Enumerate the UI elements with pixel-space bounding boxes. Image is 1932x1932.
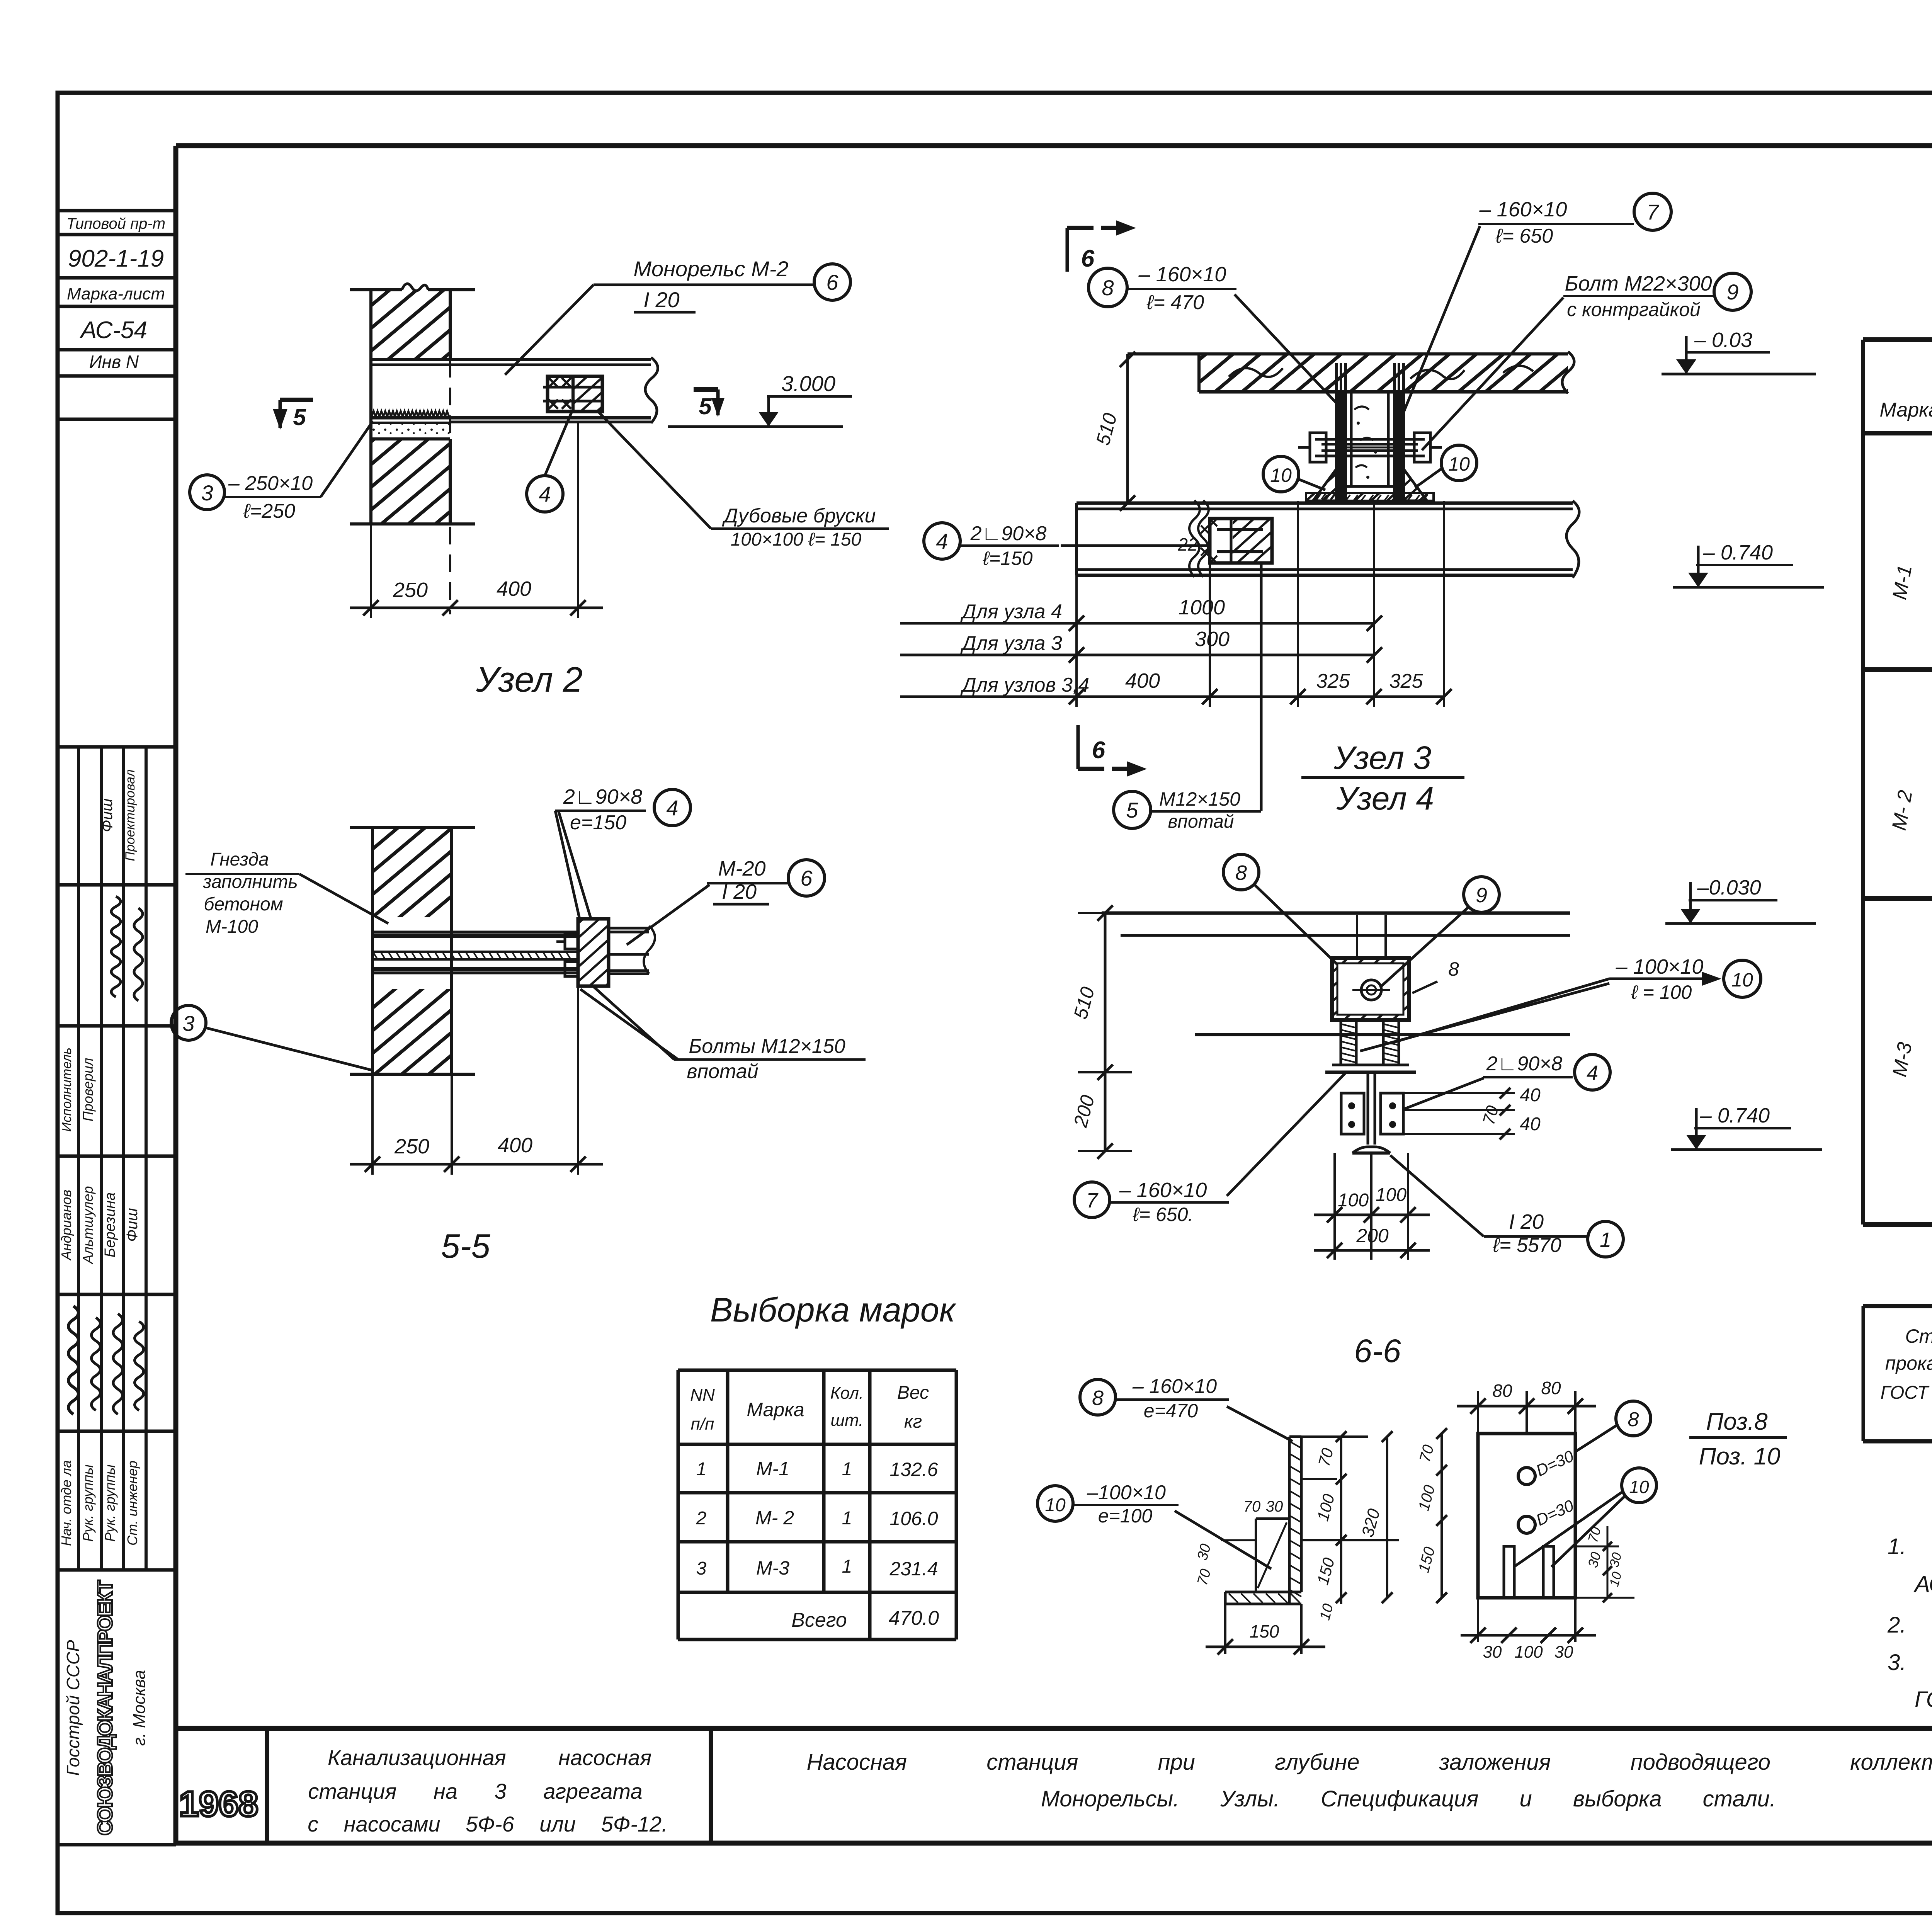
callout 8 with label (pos8) xyxy=(1080,1379,1116,1415)
left dims 70/100/150 xyxy=(1440,1434,1443,1598)
svg-text:ГОСТ 380-60: ГОСТ 380-60 xyxy=(1880,1383,1932,1403)
svg-text:400: 400 xyxy=(498,1134,532,1157)
callout 8 right xyxy=(1616,1401,1651,1436)
svg-text:6: 6 xyxy=(800,866,813,890)
spec steel table xyxy=(1863,340,1932,1225)
svg-text:– 0.740: – 0.740 xyxy=(1700,1104,1770,1127)
svg-text:шт.: шт. xyxy=(831,1411,864,1430)
svg-text:400: 400 xyxy=(497,577,531,600)
svg-text:325: 325 xyxy=(1389,670,1423,692)
ceiling slab hatched xyxy=(1199,354,1568,392)
dims 100/100/200 below xyxy=(1333,1153,1336,1260)
svg-text:9: 9 xyxy=(1476,884,1487,907)
svg-text:ГОСТ 9467 - 60.: ГОСТ 9467 - 60. xyxy=(1915,1687,1932,1712)
bolt heads xyxy=(565,934,578,949)
monorail beam (uzel 3-4) xyxy=(1077,502,1573,505)
callout 10 with -100x10 label xyxy=(1724,960,1761,997)
svg-text:Узел 3: Узел 3 xyxy=(1333,740,1431,776)
organization block xyxy=(58,1580,176,1845)
svg-text:4: 4 xyxy=(666,796,678,820)
svg-text:8: 8 xyxy=(1092,1386,1104,1410)
signature grid xyxy=(58,747,176,1570)
svg-text:8: 8 xyxy=(1448,958,1459,980)
svg-text:– 160×10: – 160×10 xyxy=(1138,263,1226,286)
svg-text:70: 70 xyxy=(1243,1498,1261,1515)
callout 4 angles (uzel 3-4) xyxy=(924,522,1210,569)
svg-text:400: 400 xyxy=(1125,669,1160,692)
svg-text:3: 3 xyxy=(182,1011,194,1036)
callout 5 bolt M12 xyxy=(1114,563,1261,832)
svg-text:Болт М22×300: Болт М22×300 xyxy=(1565,272,1712,295)
svg-text:АС-54: АС-54 xyxy=(79,317,147,344)
bottom bars xyxy=(1504,1546,1514,1598)
bearing plate assembly xyxy=(578,919,609,986)
wall upper hatched block xyxy=(371,290,450,360)
seat plate on beam xyxy=(1306,493,1434,501)
spec table data xyxy=(1888,444,1932,1213)
svg-text:Андрианов: Андрианов xyxy=(58,1190,74,1261)
svg-text:200: 200 xyxy=(1356,1225,1389,1247)
uzel 2 drawing xyxy=(190,257,889,699)
upper plate box with hole xyxy=(1332,958,1409,1020)
svg-text:6: 6 xyxy=(1092,737,1105,764)
svg-text:1: 1 xyxy=(842,1459,852,1480)
svg-text:Для узла 4: Для узла 4 xyxy=(960,600,1062,623)
right dims of side view xyxy=(1301,1435,1368,1438)
svg-text:10: 10 xyxy=(1448,453,1470,475)
slab squiggles xyxy=(1229,368,1283,377)
svg-text:Фиш: Фиш xyxy=(124,1208,141,1242)
svg-text:кг: кг xyxy=(904,1412,922,1432)
svg-text:132.6: 132.6 xyxy=(889,1459,938,1480)
svg-text:4: 4 xyxy=(936,529,948,553)
callout 3 plate label xyxy=(190,475,224,510)
svg-text:9: 9 xyxy=(1726,280,1738,304)
svg-text:10: 10 xyxy=(1731,969,1753,991)
svg-text:М12×150: М12×150 xyxy=(1159,788,1240,810)
callout 10 right xyxy=(1622,1468,1656,1503)
left column header boxes xyxy=(58,211,176,419)
spec table header text xyxy=(1879,351,1932,421)
svg-text:100: 100 xyxy=(1514,1643,1543,1662)
callouts 10 gussets xyxy=(1263,445,1477,492)
uzel 3/4 title xyxy=(1301,740,1464,816)
svg-text:Исполнитель: Исполнитель xyxy=(60,1048,74,1132)
svg-text:ℓ = 100: ℓ = 100 xyxy=(1631,981,1692,1003)
right small dims xyxy=(1575,1546,1619,1548)
svg-text:М-20: М-20 xyxy=(718,857,765,880)
section marker 6 bottom xyxy=(1077,725,1080,769)
svg-text:10: 10 xyxy=(1045,1495,1066,1515)
svg-text:1. Совместно с данным листом: 1. Совместно с данным листом см. лист xyxy=(1888,1534,1932,1559)
dim 510/200 left (6-6) xyxy=(1104,913,1107,1151)
svg-text:ℓ=150: ℓ=150 xyxy=(983,548,1033,569)
serrated seat line xyxy=(372,411,449,417)
svg-text:Проверил: Проверил xyxy=(80,1058,96,1122)
svg-text:Поз. 10: Поз. 10 xyxy=(1699,1443,1781,1470)
svg-text:Узел 2: Узел 2 xyxy=(476,660,583,699)
svg-text:АС -53.: АС -53. xyxy=(1913,1571,1932,1597)
svg-text:Выборка марок: Выборка марок xyxy=(710,1291,957,1329)
extension line x=1496 xyxy=(577,422,579,618)
svg-text:Поз.8: Поз.8 xyxy=(1706,1408,1768,1435)
svg-text:Альтшулер: Альтшулер xyxy=(80,1186,96,1264)
pos8 side view plate xyxy=(1037,1375,1399,1655)
svg-text:3. Сварку производить электр: 3. Сварку производить электродами Э-42 xyxy=(1888,1650,1932,1675)
bottom dim 150 xyxy=(1224,1604,1226,1654)
svg-text:5: 5 xyxy=(293,404,306,430)
svg-text:Монорельсы. Узлы. Спецификаци: Монорельсы. Узлы. Спецификация и выборка… xyxy=(1041,1786,1776,1811)
monorail beam top lines xyxy=(371,358,651,361)
svg-text:8: 8 xyxy=(1235,861,1247,884)
svg-text:NN: NN xyxy=(690,1386,715,1405)
hanger vertical plates xyxy=(1335,363,1338,501)
svg-text:3: 3 xyxy=(696,1558,707,1579)
svg-text:Сталь: Сталь xyxy=(1905,1325,1932,1347)
I beam section xyxy=(1367,1072,1369,1145)
svg-text:300: 300 xyxy=(1195,628,1230,651)
dashed wall face line xyxy=(449,360,451,614)
svg-text:М- 2: М- 2 xyxy=(755,1507,794,1529)
svg-text:6-6: 6-6 xyxy=(1354,1333,1401,1369)
dim 510 vertical xyxy=(1092,352,1135,511)
svg-text:прокатная: прокатная xyxy=(1885,1352,1932,1374)
anchor plate on beam (uzel 3-4) xyxy=(1210,519,1272,563)
svg-text:250: 250 xyxy=(393,578,428,602)
callout 9 (6-6) xyxy=(1464,877,1499,912)
svg-text:– 0.740: – 0.740 xyxy=(1703,541,1773,564)
svg-text:7: 7 xyxy=(1646,200,1659,224)
svg-text:30: 30 xyxy=(1554,1643,1573,1662)
wall lower hatched block xyxy=(371,439,450,524)
gusset left xyxy=(1313,469,1337,501)
svg-text:5: 5 xyxy=(1126,798,1138,822)
svg-text:Рук. группы: Рук. группы xyxy=(102,1464,118,1542)
dim lines for uzel 3-4 xyxy=(900,501,1452,707)
svg-text:2∟90×8: 2∟90×8 xyxy=(1486,1053,1563,1075)
svg-text:2. Все неоговоренные швы прин: 2. Все неоговоренные швы принимать h= 6м… xyxy=(1887,1612,1932,1638)
svg-text:5: 5 xyxy=(699,393,712,419)
svg-text:1: 1 xyxy=(842,1508,852,1529)
dimension line 250/400 xyxy=(350,607,603,609)
svg-text:ℓ= 5570: ℓ= 5570 xyxy=(1492,1234,1561,1257)
svg-text:1: 1 xyxy=(1600,1228,1611,1252)
svg-text:e=150: e=150 xyxy=(570,811,626,834)
sheet name lines xyxy=(807,1750,1932,1811)
svg-text:Типовой пр-т: Типовой пр-т xyxy=(66,215,165,232)
section marker 5 right xyxy=(694,387,718,392)
svg-text:Вес: Вес xyxy=(897,1383,929,1403)
callout 4 xyxy=(527,476,563,512)
svg-text:ℓ=250: ℓ=250 xyxy=(243,500,295,522)
svg-text:Дубовые бруски: Дубовые бруски xyxy=(722,505,876,527)
inner angle bracket xyxy=(1256,1517,1289,1520)
svg-text:I 20: I 20 xyxy=(1509,1210,1544,1233)
svg-text:ℓ= 650: ℓ= 650 xyxy=(1495,225,1553,247)
svg-text:Березина: Березина xyxy=(102,1192,118,1258)
svg-text:М-3: М-3 xyxy=(756,1557,789,1579)
svg-text:e=470: e=470 xyxy=(1144,1400,1198,1422)
callout 7 with label xyxy=(1401,193,1671,419)
svg-text:80: 80 xyxy=(1492,1381,1512,1401)
wall upper hatched block (5-5) xyxy=(372,828,452,917)
section marker 6 top xyxy=(1066,228,1069,272)
inner drawing frame xyxy=(176,146,1932,1843)
svg-text:с контргайкой: с контргайкой xyxy=(1567,299,1701,320)
svg-text:10: 10 xyxy=(1629,1477,1649,1497)
svg-text:– 160×10: – 160×10 xyxy=(1479,198,1567,221)
svg-text:100: 100 xyxy=(1376,1185,1406,1205)
svg-text:– 100×10: – 100×10 xyxy=(1616,955,1704,978)
welded bars below box xyxy=(1340,1020,1342,1065)
svg-text:1000: 1000 xyxy=(1179,596,1225,619)
svg-text:–100×10: –100×10 xyxy=(1087,1481,1166,1504)
callout 4 angles (6-6) xyxy=(1575,1054,1610,1090)
svg-text:М-1: М-1 xyxy=(756,1458,789,1480)
svg-text:Рук. группы: Рук. группы xyxy=(80,1464,96,1542)
svg-text:Для узлов 3,4: Для узлов 3,4 xyxy=(960,674,1089,696)
svg-text:с насосами 5Ф-6 или 5Ф-12.: с насосами 5Ф-6 или 5Ф-12. xyxy=(308,1812,668,1836)
holes d30 xyxy=(1518,1468,1535,1485)
svg-text:Для узла 3: Для узла 3 xyxy=(960,632,1062,655)
svg-text:Проектировал: Проектировал xyxy=(123,769,138,861)
title block xyxy=(176,1728,1932,1843)
svg-text:231.4: 231.4 xyxy=(889,1558,938,1580)
svg-text:I 20: I 20 xyxy=(643,287,679,312)
monorail beam bottom lines xyxy=(371,416,651,420)
top dims 80/80 xyxy=(1477,1391,1479,1434)
svg-text:902-1-19: 902-1-19 xyxy=(68,245,164,272)
svg-text:5-5: 5-5 xyxy=(441,1227,490,1265)
svg-text:– 160×10: – 160×10 xyxy=(1119,1179,1207,1202)
primechaniya notes xyxy=(1887,1492,1932,1712)
svg-text:Кол.: Кол. xyxy=(830,1384,864,1403)
svg-text:Всего: Всего xyxy=(791,1609,847,1631)
callout 10 with label (pos10) xyxy=(1037,1486,1073,1521)
svg-text:40: 40 xyxy=(1520,1085,1541,1105)
anchor plate with oak blocks xyxy=(548,376,602,412)
section 6-6 drawing xyxy=(1069,854,1822,1369)
svg-text:1968: 1968 xyxy=(179,1784,259,1824)
svg-text:2: 2 xyxy=(696,1508,707,1529)
dimension 250/400 (5-5) xyxy=(371,1074,374,1175)
wall body outlines xyxy=(371,917,374,989)
beam top flange (6-6) xyxy=(1332,1064,1409,1066)
svg-text:80: 80 xyxy=(1541,1378,1561,1398)
svg-text:п/п: п/п xyxy=(691,1415,714,1434)
svg-text:30: 30 xyxy=(1266,1498,1283,1515)
svg-text:6: 6 xyxy=(826,270,838,294)
bottom dims 30/100/30 xyxy=(1477,1598,1479,1642)
svg-text:7: 7 xyxy=(1086,1189,1099,1212)
svg-text:3.000: 3.000 xyxy=(781,371,835,396)
svg-text:ℓ= 650.: ℓ= 650. xyxy=(1133,1204,1194,1225)
svg-text:станция на 3 агрегата: станция на 3 агрегата xyxy=(308,1779,642,1803)
svg-text:4: 4 xyxy=(539,482,551,506)
svg-text:2∟90×8: 2∟90×8 xyxy=(970,522,1047,545)
svg-text:2∟90×8: 2∟90×8 xyxy=(563,785,643,808)
dims 40/70/40 xyxy=(1403,1092,1515,1094)
bottom flange xyxy=(1225,1591,1301,1594)
svg-text:М-100: М-100 xyxy=(206,917,258,937)
side angles with bolts xyxy=(1341,1093,1364,1134)
elevation -0.740 (uzel 3-4) xyxy=(1673,541,1824,587)
svg-text:впотай: впотай xyxy=(687,1060,758,1083)
elevation -0.03 xyxy=(1662,328,1816,374)
svg-text:–0.030: –0.030 xyxy=(1697,876,1761,899)
svg-text:Насосная станция при глубине з: Насосная станция при глубине заложения п… xyxy=(807,1750,1932,1775)
svg-text:100: 100 xyxy=(1338,1190,1369,1211)
svg-text:Болты М12×150: Болты М12×150 xyxy=(689,1035,845,1058)
svg-text:10: 10 xyxy=(1270,464,1292,486)
svg-text:СОЮЗВОДОКАНАЛПРОЕКТ: СОЮЗВОДОКАНАЛПРОЕКТ xyxy=(94,1580,117,1835)
anchor bolt stubs above box xyxy=(1356,915,1358,958)
svg-text:e=100: e=100 xyxy=(1098,1505,1153,1527)
svg-text:впотай: впотай xyxy=(1168,811,1234,832)
callout 7 (6-6) xyxy=(1074,1182,1110,1218)
callout 8 (6-6) xyxy=(1223,854,1259,890)
concrete stipple strip xyxy=(371,423,450,438)
svg-text:150: 150 xyxy=(1250,1621,1279,1641)
embedded plates dark lines xyxy=(372,931,578,934)
svg-text:– 160×10: – 160×10 xyxy=(1132,1375,1217,1398)
svg-text:Гнезда: Гнезда xyxy=(210,849,269,870)
svg-text:470.0: 470.0 xyxy=(889,1607,939,1629)
callout 1 I20 xyxy=(1588,1221,1623,1257)
svg-text:Фиш: Фиш xyxy=(99,798,116,832)
svg-text:Канализационная насосная: Канализационная насосная xyxy=(328,1745,651,1770)
svg-text:4: 4 xyxy=(1587,1061,1598,1085)
svg-text:ℓ= 470: ℓ= 470 xyxy=(1146,291,1204,314)
svg-text:– 250×10: – 250×10 xyxy=(228,472,313,495)
svg-text:325: 325 xyxy=(1316,670,1350,692)
svg-text:– 0.03: – 0.03 xyxy=(1694,328,1752,352)
svg-text:40: 40 xyxy=(1520,1114,1541,1134)
project name lines xyxy=(308,1745,668,1836)
section 5-5 drawing xyxy=(171,785,866,1265)
svg-text:Марка: Марка xyxy=(1879,399,1932,421)
pos8 face view plate xyxy=(1415,1378,1787,1662)
beam right break xyxy=(645,357,658,423)
svg-text:бетоном: бетоном xyxy=(204,894,283,915)
vyborka marok table xyxy=(678,1370,956,1639)
svg-text:30: 30 xyxy=(1483,1643,1502,1662)
slab soffit lines xyxy=(1102,912,1570,915)
svg-text:г. Москва: г. Москва xyxy=(130,1670,149,1746)
svg-text:100×100 ℓ= 150: 100×100 ℓ= 150 xyxy=(731,529,862,550)
svg-text:106.0: 106.0 xyxy=(889,1508,938,1529)
callout 9 bolt label xyxy=(1422,272,1751,450)
svg-text:Марка-лист: Марка-лист xyxy=(67,284,165,303)
svg-text:Инв N: Инв N xyxy=(89,352,139,372)
wall lower hatched block (5-5) xyxy=(372,989,452,1074)
svg-text:6: 6 xyxy=(1081,245,1095,272)
svg-text:Ст. инженер: Ст. инженер xyxy=(124,1461,140,1546)
section marker 5 left xyxy=(280,398,313,402)
svg-text:Монорельс М-2: Монорельс М-2 xyxy=(633,257,788,281)
anchor rod xyxy=(372,951,578,953)
svg-text:Марка: Марка xyxy=(747,1399,804,1420)
svg-text:8: 8 xyxy=(1102,276,1114,300)
uzel 3-4 drawing xyxy=(1067,220,1579,777)
svg-text:1: 1 xyxy=(696,1459,707,1480)
svg-text:Узел 4: Узел 4 xyxy=(1336,780,1434,816)
bolt through plates xyxy=(1315,438,1425,441)
I-beam end behind plate xyxy=(609,927,649,930)
callout 8 with label xyxy=(1088,263,1339,406)
svg-text:Госстрой СССР: Госстрой СССР xyxy=(63,1640,83,1776)
svg-text:250: 250 xyxy=(394,1135,429,1158)
svg-text:Нач. отде ла: Нач. отде ла xyxy=(58,1460,74,1546)
callout 3 (5-5) xyxy=(171,1005,206,1040)
vyborka stali table xyxy=(1863,1306,1932,1441)
svg-text:3: 3 xyxy=(201,481,213,505)
concrete downstand rib xyxy=(1350,392,1353,486)
svg-text:8: 8 xyxy=(1628,1408,1639,1431)
svg-text:1: 1 xyxy=(842,1556,852,1577)
